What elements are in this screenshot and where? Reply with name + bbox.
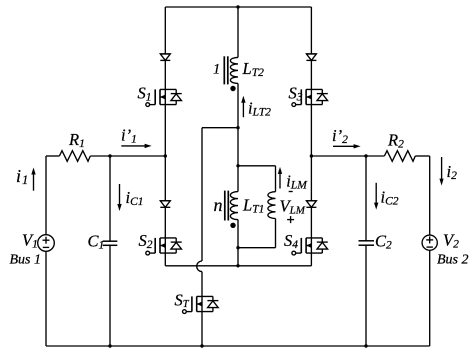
wire ST leg upper xyxy=(201,128,203,261)
wire S1 to mid-left rail xyxy=(164,105,166,156)
svg-text:iLM: iLM xyxy=(286,172,308,192)
diode D3 (above S3) xyxy=(306,54,316,61)
svg-text:i2: i2 xyxy=(447,162,458,182)
capacitor C2 xyxy=(359,240,375,242)
inductor LM winding xyxy=(268,192,276,219)
arrow iLT2 xyxy=(242,102,244,117)
wire rail to D2 xyxy=(164,156,166,201)
svg-text:R2: R2 xyxy=(387,131,404,151)
wire V2 branch lower xyxy=(429,251,431,346)
phase dot LT2 xyxy=(230,86,235,91)
svg-text:S2: S2 xyxy=(139,231,153,251)
wire magnetizing loop bottom xyxy=(238,247,276,249)
arrow iC1 xyxy=(119,184,121,205)
wire V1 branch upper xyxy=(45,156,47,235)
wire D2 to S2 xyxy=(164,207,166,238)
wire top rail xyxy=(165,6,311,8)
transistor ST (MOSFET with body diode) xyxy=(183,296,219,313)
diode D1 (above S1) xyxy=(160,54,170,61)
wire S4 source up xyxy=(310,253,312,266)
resistor R1 xyxy=(59,151,90,162)
wire from LT2 node to left xyxy=(202,127,238,129)
plus sign VLM xyxy=(287,219,294,221)
node bottom of magnetizing loop xyxy=(236,246,239,249)
wire C2 branch upper xyxy=(365,156,367,241)
diode D2 (above S2) xyxy=(160,201,170,208)
svg-text:LT2: LT2 xyxy=(242,59,265,79)
wire magnetizing right leg lower xyxy=(275,219,277,248)
svg-text:i’2: i’2 xyxy=(332,126,348,146)
svg-text:C2: C2 xyxy=(375,232,392,252)
arrow i'2 xyxy=(333,145,355,147)
wire magnetizing right leg upper xyxy=(275,166,277,192)
node C2 tap xyxy=(364,154,367,157)
svg-text:S1: S1 xyxy=(138,84,152,104)
source V1 xyxy=(38,235,55,252)
transistor S4 (MOSFET with body diode) xyxy=(292,238,328,255)
arrow i1 xyxy=(33,174,35,191)
wire mid-right rail right segment xyxy=(415,155,429,157)
wire S3 to D3 xyxy=(310,60,312,89)
wire D3 to top rail xyxy=(310,7,312,54)
wire magnetizing loop top xyxy=(238,165,276,167)
phase dot LT1 xyxy=(230,223,235,228)
svg-text:V1: V1 xyxy=(22,231,38,251)
wire center branch from top rail xyxy=(237,7,239,57)
transistor S3 (MOSFET with body diode) xyxy=(292,89,328,106)
node junction to ST leg xyxy=(236,126,239,129)
inductor LT2 winding xyxy=(230,57,238,83)
wire mid-right rail left segment xyxy=(311,155,384,157)
svg-text:R1: R1 xyxy=(68,130,85,150)
wire V2 branch upper xyxy=(429,156,431,235)
svg-text:Bus 1: Bus 1 xyxy=(10,253,42,268)
node top of magnetizing loop xyxy=(236,164,239,167)
svg-text:n: n xyxy=(214,195,223,215)
capacitor C1 xyxy=(103,240,118,242)
diode D4 (above S4) xyxy=(306,201,316,208)
transistor S1 (MOSFET with body diode) xyxy=(146,89,182,106)
arrow iLM xyxy=(279,173,281,189)
node C2 bottom xyxy=(364,344,367,347)
arrow i2 xyxy=(441,157,443,180)
source V2 xyxy=(422,235,437,250)
wire D1 to S1 xyxy=(164,60,166,89)
wire S2 source down xyxy=(164,253,166,266)
node S1-S2 tap xyxy=(164,154,167,157)
wire C1 branch lower xyxy=(109,245,111,346)
wire LT1 down xyxy=(237,220,239,266)
transistor S2 (MOSFET with body diode) xyxy=(146,238,182,255)
minus sign VLM xyxy=(289,191,293,193)
resistor R2 xyxy=(384,151,415,162)
wire V1 branch lower xyxy=(45,251,47,346)
svg-text:iC2: iC2 xyxy=(381,188,399,208)
svg-text:iLT2: iLT2 xyxy=(248,99,271,119)
wire mid-left rail right segment xyxy=(90,155,165,157)
node center tap on source rail xyxy=(236,264,239,267)
svg-text:Bus 2: Bus 2 xyxy=(437,253,469,268)
wire LT2 to LT1 xyxy=(237,83,239,191)
wire bottom rail xyxy=(46,345,430,347)
wire ST to bottom rail xyxy=(201,312,203,346)
wire rail up to S3 xyxy=(310,105,312,156)
arrow iC2 xyxy=(375,183,377,204)
svg-text:V2: V2 xyxy=(443,231,459,251)
svg-text:VLM: VLM xyxy=(280,196,306,216)
transformer core bars LT2 xyxy=(223,56,225,84)
svg-text:S3: S3 xyxy=(289,84,303,104)
wire C1 branch upper xyxy=(109,156,111,241)
svg-text:i1: i1 xyxy=(16,166,28,187)
wire ST leg lower xyxy=(201,272,203,297)
wire S2-S4 source rail xyxy=(165,265,311,267)
wire D4 to mid-right rail xyxy=(310,156,312,201)
wire mid-left rail left segment xyxy=(46,155,59,157)
svg-text:1: 1 xyxy=(213,62,220,78)
svg-text:S4: S4 xyxy=(284,231,298,251)
svg-text:C1: C1 xyxy=(88,232,105,252)
wire hop over source rail xyxy=(197,261,202,272)
node C1 bottom xyxy=(108,344,111,347)
svg-text:i’1: i’1 xyxy=(121,126,137,146)
node C1 tap xyxy=(108,154,111,157)
node top-center junction xyxy=(236,5,239,8)
svg-text:iC1: iC1 xyxy=(126,188,144,208)
inductor LT1 winding xyxy=(230,192,238,220)
wire left leg top xyxy=(164,7,166,54)
svg-text:ST: ST xyxy=(175,291,190,311)
wire C2 branch lower xyxy=(365,245,367,346)
svg-text:LT1: LT1 xyxy=(242,196,264,216)
wire S4 drain to D4 xyxy=(310,207,312,238)
node ST bottom xyxy=(200,344,203,347)
transformer core bars LT1 xyxy=(224,191,226,221)
node S3-S4 tap xyxy=(310,154,313,157)
arrow i'1 xyxy=(121,145,145,147)
